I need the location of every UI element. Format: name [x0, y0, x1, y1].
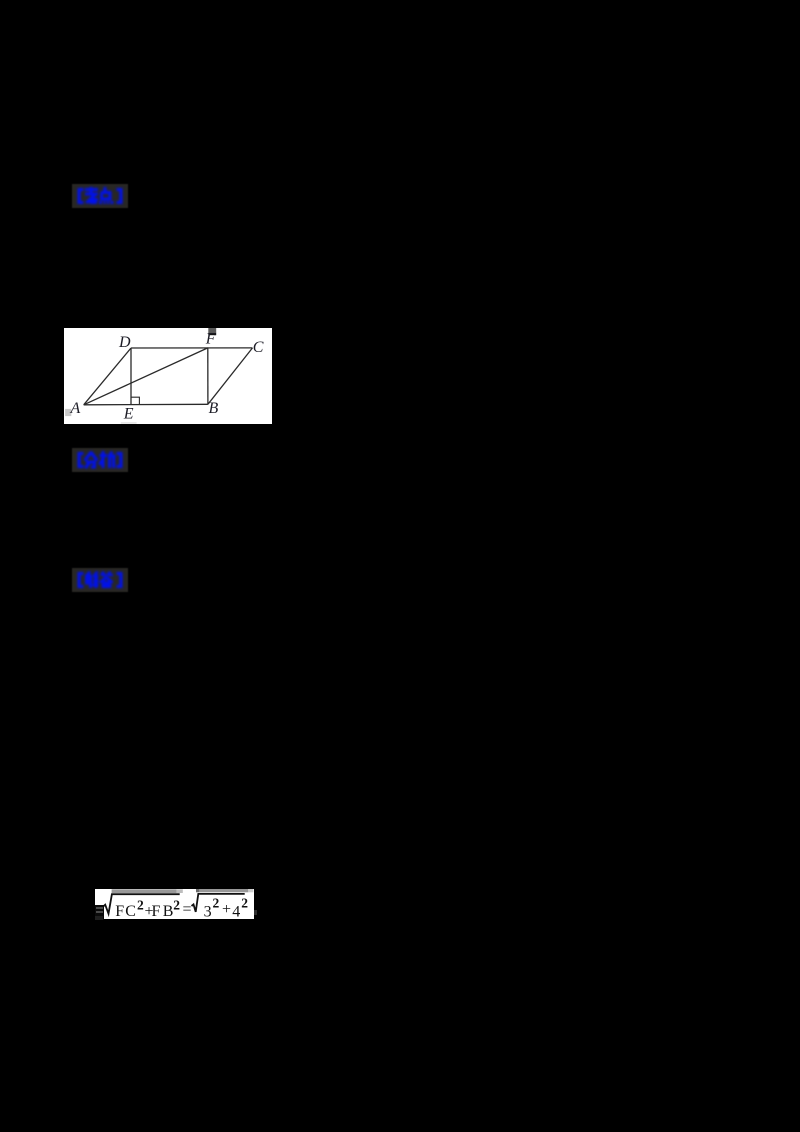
svg-text:2: 2 [173, 897, 180, 912]
svg-text:=: = [183, 901, 192, 918]
svg-text:C: C [126, 903, 137, 919]
svg-text:C: C [252, 339, 263, 356]
svg-text:2: 2 [137, 897, 144, 912]
svg-text:4: 4 [233, 903, 241, 919]
svg-text:B: B [208, 400, 218, 417]
svg-text:F: F [115, 903, 124, 919]
svg-text:D: D [118, 334, 131, 351]
svg-text:F: F [204, 330, 215, 347]
svg-text:2: 2 [213, 895, 220, 910]
svg-text:A: A [69, 399, 80, 416]
svg-text:B: B [163, 903, 174, 919]
svg-text:E: E [122, 405, 133, 422]
svg-text:+: + [222, 901, 231, 918]
svg-text:2: 2 [242, 895, 249, 910]
svg-text:F: F [152, 903, 161, 919]
svg-text:3: 3 [204, 903, 212, 919]
